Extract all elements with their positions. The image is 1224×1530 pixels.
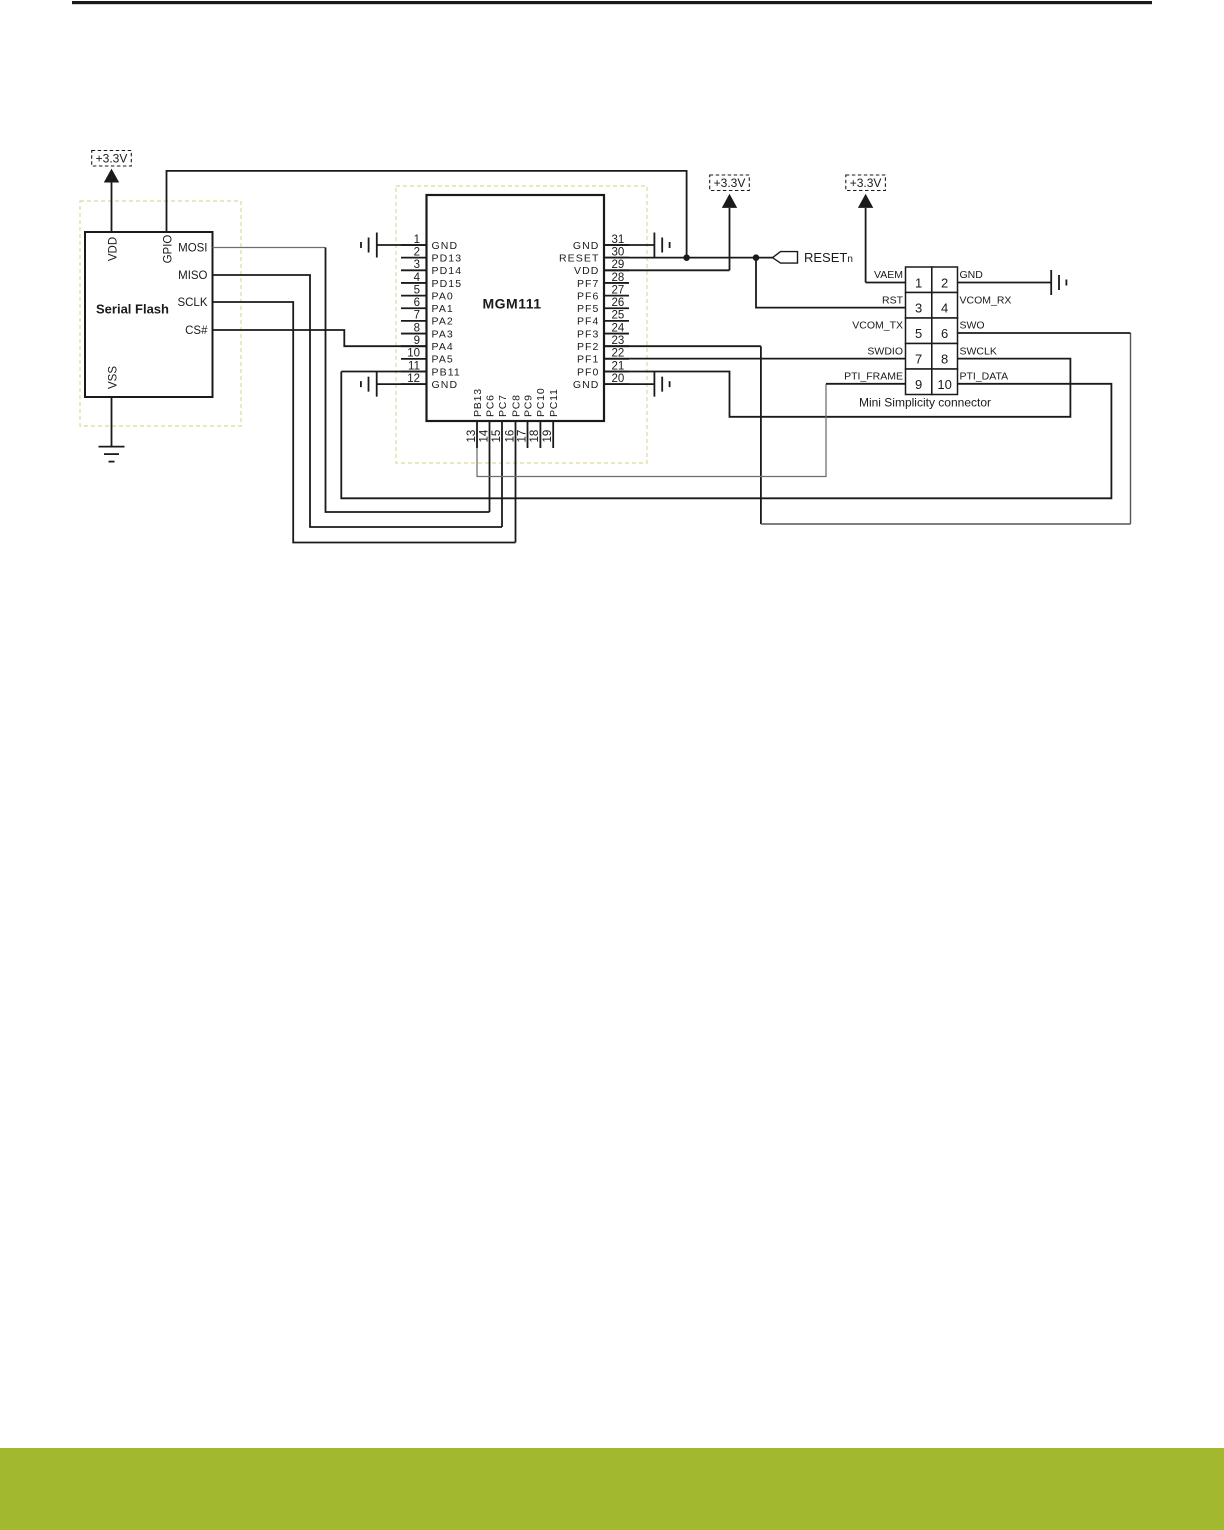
svg-text:PF6: PF6 [577,290,600,302]
svg-text:GND: GND [432,379,459,391]
wire VDD net: MGM111 pin29 to +3.3V [604,208,730,270]
svg-text:3: 3 [414,259,420,271]
wire SWO net: connector pin6 to MGM111 PF2 [604,333,1131,524]
svg-text:VAEM: VAEM [874,269,903,281]
svg-text:MISO: MISO [178,270,207,282]
svg-text:PA2: PA2 [432,316,454,328]
power +3.3V (serial flash VDD) [92,151,132,183]
svg-text:SWCLK: SWCLK [960,345,997,357]
svg-text:RESET: RESET [559,252,600,264]
svg-text:6: 6 [414,297,420,309]
svg-text:PF3: PF3 [577,328,600,340]
svg-text:1: 1 [915,276,922,291]
wire MGM111 pin20 GND [604,383,654,385]
svg-text:PB11: PB11 [432,366,461,378]
svg-text:PC9: PC9 [522,394,534,417]
MGM111 left pins 1-12 [401,234,462,391]
wire SWCLK net: MGM111 PF0 to connector pin8 [604,359,1070,417]
svg-text:13: 13 [466,430,478,443]
ground (serial flash VSS) [99,447,125,462]
svg-text:7: 7 [414,310,420,322]
svg-text:PA0: PA0 [432,290,454,302]
svg-text:6: 6 [941,326,948,341]
svg-text:21: 21 [612,360,625,372]
svg-text:PA3: PA3 [432,328,454,340]
svg-text:VCOM_RX: VCOM_RX [960,294,1012,306]
svg-text:9: 9 [915,377,922,392]
power +3.3V (MGM111 VDD) [710,175,750,208]
MGM111 bottom pins 13-19 [466,388,560,448]
wire CS# net: serial flash CS# to MGM111 PA4 [213,330,427,346]
svg-text:PF1: PF1 [577,354,600,366]
svg-text:GND: GND [573,379,600,391]
svg-text:20: 20 [612,373,625,385]
svg-text:Mini Simplicity connector: Mini Simplicity connector [859,396,991,410]
wire MISO net: serial flash MISO to MGM111 PC7 [213,275,503,527]
svg-text:VCOM_TX: VCOM_TX [852,320,903,332]
svg-text:7: 7 [915,352,922,367]
ground at MGM111 pin12 [361,372,377,397]
wire RST net: RESET junction down to connector pin3 [756,258,906,308]
svg-text:PF0: PF0 [577,366,600,378]
svg-text:PB13: PB13 [472,388,484,417]
svg-text:4: 4 [941,301,948,316]
svg-text:GND: GND [573,240,600,252]
svg-text:PF7: PF7 [577,278,600,290]
svg-text:25: 25 [612,310,625,322]
svg-text:VDD: VDD [108,237,120,261]
wire SWDIO net: MGM111 PF1 to connector pin7 [604,358,906,360]
wire PTI_FRAME net: MGM111 PB13 to connector pin9 [477,384,906,477]
svg-text:3: 3 [915,301,922,316]
svg-text:16: 16 [504,430,516,443]
wire VDD to serial flash [111,183,113,233]
svg-text:23: 23 [612,335,625,347]
svg-text:4: 4 [414,272,421,284]
ground at MGM111 pin31 [654,233,669,258]
junction RESET/RST [753,254,760,261]
wire SCLK net: serial flash SCLK to MGM111 PC8 [213,302,516,543]
wire RESET: MGM111 pin30 to RESETn flag [604,257,773,259]
svg-text:11: 11 [408,360,420,372]
svg-text:PD13: PD13 [432,252,463,264]
svg-text:VSS: VSS [108,366,120,389]
wire MGM111 pin12 GND [377,383,427,385]
svg-text:26: 26 [612,297,625,309]
connector J1 Mini Simplicity 2x5 [844,267,1011,410]
wire VAEM net: +3.3V to connector pin1 [866,208,906,283]
svg-text:14: 14 [478,429,490,442]
svg-text:2: 2 [414,246,420,258]
svg-text:PA5: PA5 [432,354,454,366]
svg-text:PC11: PC11 [548,388,560,417]
svg-text:28: 28 [612,272,625,284]
svg-text:PD15: PD15 [432,278,463,290]
svg-text:9: 9 [414,335,420,347]
svg-text:24: 24 [612,322,625,334]
ground at MGM111 pin1 [361,233,377,258]
MGM111 right pins 31-20 [559,234,629,391]
svg-text:+3.3V: +3.3V [96,152,128,166]
wire MGM111 pin31 GND [604,244,654,246]
svg-text:17: 17 [516,430,528,443]
svg-text:PC7: PC7 [497,394,509,417]
highlight outline around MGM111 [396,186,647,463]
svg-text:PC8: PC8 [510,394,522,417]
wire MGM111 pin1 GND [377,244,427,246]
svg-text:SWO: SWO [960,320,985,332]
power +3.3V (VAEM) [846,175,886,208]
svg-text:SWDIO: SWDIO [867,345,903,357]
ground at MGM111 pin20 [654,372,669,397]
ground at connector pin2 [1051,270,1066,295]
svg-text:10: 10 [937,377,951,392]
svg-text:Serial Flash: Serial Flash [96,302,169,317]
svg-text:18: 18 [529,430,541,443]
highlight outline around Serial Flash [80,201,241,426]
svg-text:5: 5 [414,284,420,296]
wire VSS down [111,397,113,447]
wire GND net: connector pin2 to ground [958,282,1052,284]
svg-text:2: 2 [941,276,948,291]
svg-text:PD14: PD14 [432,265,463,277]
svg-text:GND: GND [960,269,984,281]
svg-text:PC10: PC10 [535,388,547,417]
svg-text:PA1: PA1 [432,303,454,315]
svg-text:19: 19 [542,430,554,443]
svg-text:SCLK: SCLK [177,297,207,309]
svg-text:PTI_FRAME: PTI_FRAME [844,371,903,383]
wire PTI_DATA net: MGM111 PB11 to connector pin10 [341,372,1111,499]
svg-text:PC6: PC6 [484,394,496,417]
svg-text:PTI_DATA: PTI_DATA [960,371,1009,383]
wire MOSI net: serial flash MOSI to MGM111 PC6 [213,248,490,513]
svg-text:PF5: PF5 [577,303,600,315]
svg-text:27: 27 [612,284,625,296]
svg-text:MOSI: MOSI [178,242,207,254]
svg-text:29: 29 [612,259,625,271]
svg-text:30: 30 [612,246,625,258]
svg-text:5: 5 [915,326,922,341]
MGM111 U2 [427,195,605,421]
svg-text:31: 31 [612,234,625,246]
svg-text:MGM111: MGM111 [482,296,541,312]
svg-text:15: 15 [491,430,503,443]
svg-text:GND: GND [432,240,459,252]
svg-text:12: 12 [407,373,420,385]
wire GPIO net: serial flash GPIO up and across to RESET [167,171,687,258]
net flag RESETn [773,250,853,265]
svg-text:PF2: PF2 [577,341,600,353]
svg-text:+3.3V: +3.3V [714,176,746,190]
svg-text:CS#: CS# [185,325,208,337]
svg-text:RST: RST [882,294,904,306]
svg-text:+3.3V: +3.3V [850,176,882,190]
svg-text:10: 10 [407,348,420,360]
svg-text:PA4: PA4 [432,341,454,353]
svg-text:8: 8 [414,322,420,334]
junction RESET/GPIO [683,254,690,261]
svg-text:VDD: VDD [574,265,599,277]
svg-text:8: 8 [941,352,948,367]
svg-text:RESETn: RESETn [804,250,853,265]
serial flash U1 [85,232,213,397]
svg-text:GPIO: GPIO [162,235,174,264]
svg-text:1: 1 [414,234,420,246]
svg-text:PF4: PF4 [577,316,600,328]
